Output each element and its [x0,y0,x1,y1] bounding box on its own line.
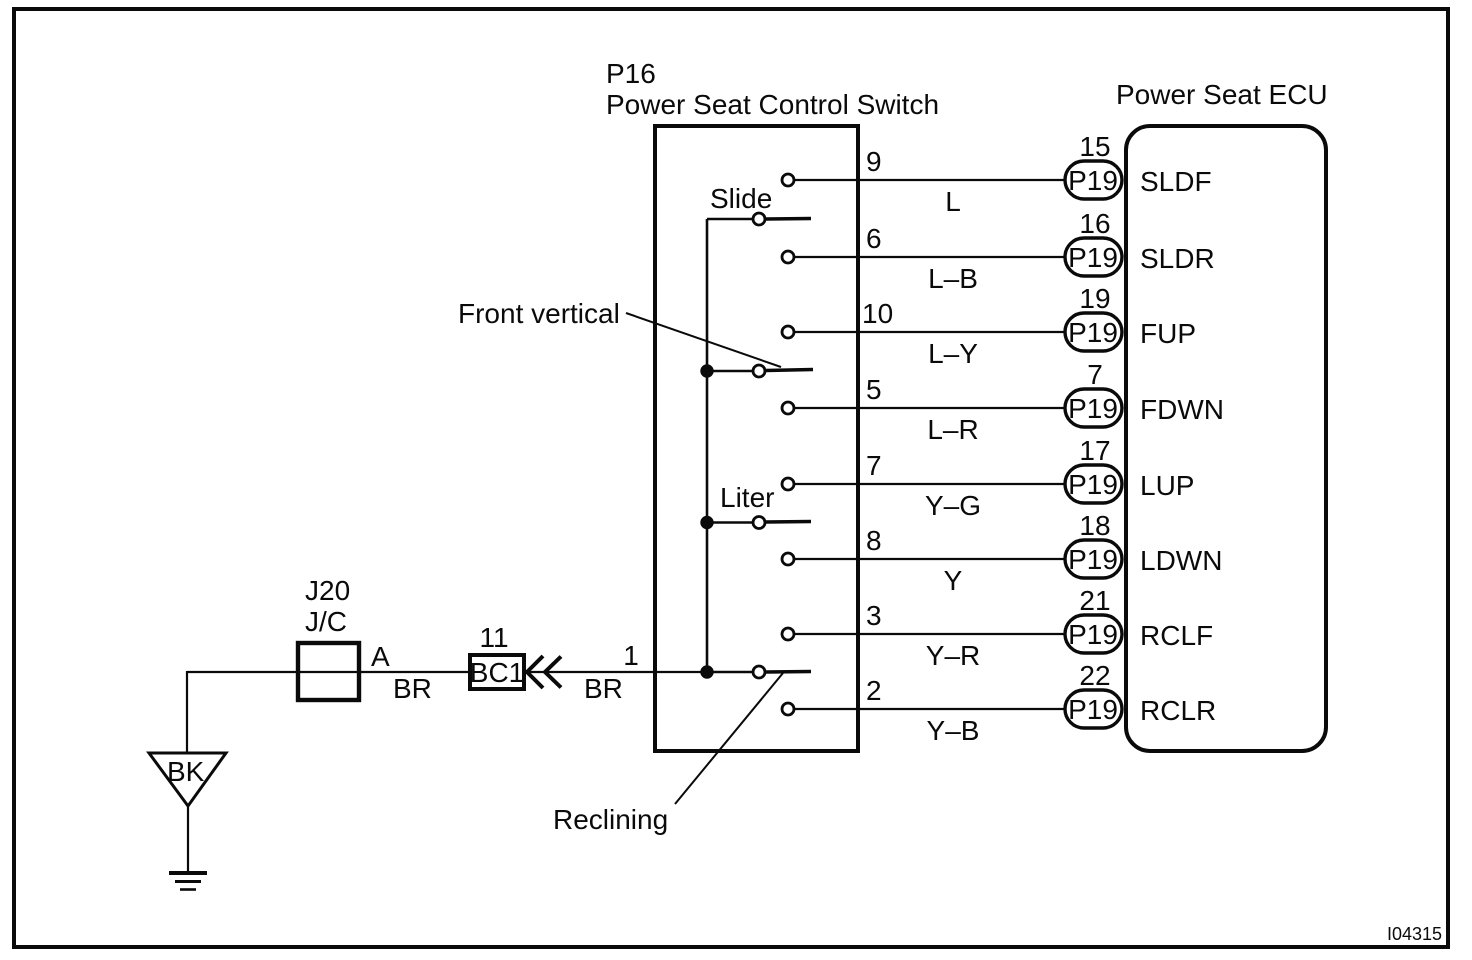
svg-text:P19: P19 [1068,469,1118,500]
svg-text:Y: Y [944,565,963,596]
svg-text:Power Seat ECU: Power Seat ECU [1116,79,1328,110]
switch S4 Reclining: pole contact [753,666,765,678]
svg-text:FDWN: FDWN [1140,394,1224,425]
svg-text:J/C: J/C [305,606,347,637]
wire: triangle to ground symbol [187,806,189,872]
svg-text:RCLF: RCLF [1140,620,1213,651]
switch S3 Liter: wire to pole [707,521,753,524]
switch S1 Slide: blade [766,217,811,221]
switch S4 Reclining: wire to pole [707,671,753,674]
wire row 1: switch pin 9 to ECU [795,179,1066,181]
svg-text:L–Y: L–Y [928,338,978,369]
ground triangle BK [149,753,226,806]
svg-text:P19: P19 [1068,242,1118,273]
switch contact pin 10 [782,326,794,338]
switch contact pin 8 [782,553,794,565]
svg-text:10: 10 [862,298,893,329]
svg-text:Y–B: Y–B [927,715,980,746]
svg-text:L–R: L–R [927,414,978,445]
svg-text:P19: P19 [1068,619,1118,650]
svg-text:Power Seat Control Switch: Power Seat Control Switch [606,89,939,120]
svg-text:P19: P19 [1068,393,1118,424]
connector P19 pin 19 oval [1065,313,1122,351]
svg-text:P19: P19 [1068,694,1118,725]
svg-text:BR: BR [584,673,623,704]
svg-text:P19: P19 [1068,317,1118,348]
svg-text:BK: BK [167,756,205,787]
wire row 2: switch pin 6 to ECU [795,256,1066,258]
switch S1 Slide: pole contact [753,213,765,225]
switch contact pin 2 [782,703,794,715]
svg-text:SLDF: SLDF [1140,166,1212,197]
leader line from Reclining label to switch [675,673,783,804]
ground symbol [169,873,207,890]
svg-text:SLDR: SLDR [1140,243,1215,274]
junction connector J20 box [298,643,359,700]
leader line from Front vertical label to switch [626,313,781,367]
connector arrow chevron 2 [545,657,561,688]
connector P19 pin 15 oval [1065,161,1122,199]
switch contact pin 3 [782,628,794,640]
switch S2 Front vertical: pole contact [753,365,765,377]
switch S3 Liter: pole contact [753,517,765,529]
svg-text:A: A [371,641,390,672]
switch box P16 outline [655,126,858,751]
svg-text:J20: J20 [305,575,350,606]
wire row 7: switch pin 3 to ECU [795,633,1066,635]
switch contact pin 9 [782,174,794,186]
svg-text:7: 7 [1087,359,1103,390]
node: bus junction for Liter switch [701,516,713,528]
svg-text:L–B: L–B [928,263,978,294]
svg-text:21: 21 [1079,585,1110,616]
connector P19 pin 21 oval [1065,615,1122,653]
svg-text:BC1: BC1 [470,657,524,688]
svg-text:FUP: FUP [1140,318,1196,349]
svg-text:P19: P19 [1068,544,1118,575]
node: bus junction for Reclining switch [701,666,713,678]
wire: BC1 to junction connector J20 [187,671,470,673]
wire row 5: switch pin 7 to ECU [795,483,1066,485]
switch contact pin 7 [782,478,794,490]
svg-text:Liter: Liter [720,482,774,513]
svg-text:Slide: Slide [710,183,772,214]
wire: J20 down to ground [186,671,188,754]
svg-text:9: 9 [866,146,882,177]
svg-text:11: 11 [479,622,508,653]
switch S2 Front vertical: wire to pole [707,370,753,373]
svg-text:LDWN: LDWN [1140,545,1222,576]
svg-text:6: 6 [866,223,882,254]
svg-text:1: 1 [623,640,639,671]
switch S2 Front vertical: blade [766,370,813,371]
connector arrow chevron 1 [527,656,543,688]
svg-text:P16: P16 [606,58,656,89]
svg-text:18: 18 [1079,510,1110,541]
svg-text:22: 22 [1079,660,1110,691]
svg-text:I04315: I04315 [1387,924,1442,944]
wire row 6: switch pin 8 to ECU [795,558,1066,560]
svg-text:2: 2 [866,675,882,706]
switch contact pin 5 [782,402,794,414]
switch contact pin 6 [782,251,794,263]
switch S3 Liter: blade [766,520,811,524]
connector P19 pin 7 oval [1065,389,1122,427]
svg-text:Y–G: Y–G [925,490,981,521]
wire row 3: switch pin 10 to ECU [795,331,1066,333]
connector BC1 box [470,655,524,689]
svg-text:Front vertical: Front vertical [458,298,620,329]
svg-text:17: 17 [1079,435,1110,466]
svg-text:8: 8 [866,525,882,556]
bus wire (switch common) [706,219,709,672]
wire row 8: switch pin 2 to ECU [795,708,1066,710]
svg-text:15: 15 [1079,131,1110,162]
connector P19 pin 22 oval [1065,690,1122,728]
svg-text:L: L [945,186,961,217]
node: bus junction for Front vertical switch [701,365,713,377]
svg-text:LUP: LUP [1140,470,1194,501]
svg-text:7: 7 [866,450,882,481]
svg-text:19: 19 [1079,283,1110,314]
connector P19 pin 16 oval [1065,238,1122,276]
connector P19 pin 17 oval [1065,465,1122,503]
svg-text:Reclining: Reclining [553,804,668,835]
svg-text:5: 5 [866,374,882,405]
ECU box U1 outline [1126,126,1326,751]
svg-text:RCLR: RCLR [1140,695,1216,726]
switch S1 Slide: wire to pole [707,218,753,221]
wire row 4: switch pin 5 to ECU [795,407,1066,409]
wire: switch pin 1 to BC1 [526,671,707,673]
svg-text:Y–R: Y–R [926,640,980,671]
switch S4 Reclining: blade [766,670,811,674]
svg-text:BR: BR [393,673,432,704]
svg-text:16: 16 [1079,208,1110,239]
connector P19 pin 18 oval [1065,540,1122,578]
svg-text:3: 3 [866,600,882,631]
svg-text:P19: P19 [1068,165,1118,196]
